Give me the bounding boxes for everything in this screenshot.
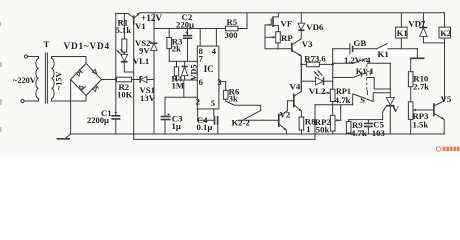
resistor R8 — [299, 111, 304, 134]
svg-text:13V: 13V — [140, 93, 156, 103]
svg-text:300: 300 — [225, 30, 239, 40]
scan edge artifacts — [0, 22, 2, 132]
wire pin4 stub — [215, 29, 217, 47]
wire secondary top to bridge — [52, 57, 87, 64]
wire V3 emitter column node — [300, 56, 302, 91]
svg-text:10K: 10K — [117, 90, 133, 100]
svg-text:K1: K1 — [378, 49, 389, 59]
wire raw DC vertical (bridge+ up to V1 collector, down to C1) — [115, 14, 117, 116]
capacitor C2 — [183, 29, 192, 62]
svg-text:~15V: ~15V — [55, 72, 64, 90]
wire pin5 stub — [213, 109, 215, 116]
wire GB feed column — [332, 49, 334, 89]
wire VF gate down to wiper line — [264, 25, 266, 49]
wire RP2 wiper up to S line — [340, 105, 342, 121]
sub rail y28.5 — [154, 28, 226, 30]
wire top raw DC to V1 — [116, 13, 128, 15]
svg-text:+: + — [114, 109, 118, 117]
wire pin8 stub — [199, 29, 201, 47]
svg-text:3k: 3k — [229, 94, 238, 104]
svg-text:6: 6 — [199, 77, 203, 87]
lower net wire (reference return) — [134, 105, 315, 140]
+12V rail — [140, 12, 445, 14]
svg-text:T: T — [44, 39, 50, 49]
node R7 left — [300, 63, 302, 65]
LED VL1 — [117, 49, 128, 61]
svg-text:K1-1: K1-1 — [356, 66, 374, 76]
resistor R2 — [117, 77, 134, 82]
node raw DC junction — [115, 78, 117, 80]
svg-text:1M: 1M — [172, 81, 185, 91]
svg-text:1µ: 1µ — [172, 121, 181, 131]
wire pin6-pin2 connector — [183, 80, 185, 97]
wire secondary bottom to bridge — [52, 96, 87, 102]
svg-text:+: + — [167, 112, 171, 119]
svg-text:4.7k: 4.7k — [351, 128, 367, 138]
svg-text:9V: 9V — [139, 46, 150, 56]
mechanical link dashed — [366, 60, 368, 92]
svg-text:VL1: VL1 — [133, 56, 149, 66]
wire V2 collector to V4 base — [287, 101, 293, 111]
wire gate line — [349, 119, 383, 121]
resistor R10 — [408, 58, 413, 102]
bridge rectifier VD1~VD4 diamond — [71, 64, 102, 96]
capacitor C4 — [215, 116, 218, 134]
svg-text:V5: V5 — [441, 94, 452, 104]
svg-text:IC: IC — [204, 64, 214, 74]
transistor V2 — [279, 111, 288, 134]
capacitor C5 — [364, 120, 373, 134]
svg-text:VL2: VL2 — [309, 86, 326, 96]
transformer T primary winding — [36, 59, 39, 99]
wire AC top lead — [28, 57, 39, 59]
wire V1 base column down to lower net — [133, 25, 135, 140]
transistor V5 — [434, 101, 445, 134]
wire pin2 line — [165, 96, 197, 98]
resistor R6 — [223, 90, 228, 101]
svg-text:VF: VF — [281, 18, 293, 28]
svg-text:1: 1 — [306, 124, 310, 134]
AC input terminal bottom — [21, 99, 24, 102]
resistor R3 — [167, 29, 172, 62]
AC input terminal top — [24, 55, 27, 58]
svg-text:2: 2 — [196, 97, 200, 107]
svg-text:103: 103 — [372, 128, 386, 138]
svg-text:R5: R5 — [227, 17, 238, 27]
ground rail (bottom) — [71, 133, 445, 135]
svg-text:2.7k: 2.7k — [413, 82, 429, 92]
svg-text:50k: 50k — [316, 125, 330, 135]
switch S — [353, 91, 391, 105]
svg-text:V3: V3 — [302, 39, 313, 49]
wire V4 collector up — [300, 56, 302, 91]
svg-text:V: V — [392, 104, 399, 114]
relay contact K1-1 upper — [333, 58, 391, 63]
transistor V4 — [294, 91, 302, 111]
potentiometer RP2 — [330, 115, 340, 134]
diode VD2 (top-right side) — [92, 69, 96, 74]
transformer T secondary winding — [52, 59, 55, 99]
relay contact K2-2 — [238, 111, 279, 121]
diode VD5 — [181, 61, 187, 80]
wire bridge DC+ output — [102, 79, 117, 81]
svg-text:VD6: VD6 — [306, 22, 324, 32]
relay contact K1-1 lower — [333, 73, 391, 89]
svg-text:~220V: ~220V — [13, 76, 36, 85]
watermark logo — [436, 147, 459, 152]
svg-text:VD1~VD4: VD1~VD4 — [64, 41, 110, 51]
battery GB — [333, 44, 377, 54]
wire R6 to K2-2 — [226, 101, 261, 110]
MOSFET VF — [265, 13, 278, 32]
svg-text:V4: V4 — [290, 81, 301, 91]
diode VD3 (bottom-left side) — [79, 86, 85, 90]
resistor R9 — [346, 120, 351, 134]
transformer core — [45, 53, 47, 103]
LED VL2 — [301, 70, 332, 85]
op IC 555 box — [197, 46, 219, 109]
resistor R4 — [174, 61, 178, 80]
svg-text:2k: 2k — [172, 44, 181, 54]
svg-text:220µ: 220µ — [176, 19, 194, 29]
svg-text:1.5k: 1.5k — [413, 120, 429, 130]
svg-text:7: 7 — [199, 54, 204, 64]
svg-text:4: 4 — [212, 46, 217, 56]
svg-text:+12V: +12V — [141, 13, 162, 23]
wire V3 base line — [265, 48, 292, 50]
svg-text:5.1k: 5.1k — [116, 25, 132, 35]
zener VS2 — [151, 42, 158, 51]
svg-text:0.1µ: 0.1µ — [197, 122, 213, 132]
relay contact K1 — [377, 44, 418, 49]
diode VD6 — [298, 13, 305, 39]
diode VD4 (bottom-right side) — [92, 85, 98, 91]
wire pin6 line — [177, 79, 198, 81]
diode VD1 (top-left side) — [76, 70, 82, 76]
relay coil K2 box — [439, 13, 451, 101]
transistor V1 — [128, 13, 140, 25]
potentiometer RP — [265, 32, 280, 49]
resistor R7 — [301, 62, 332, 67]
svg-text:S: S — [360, 95, 365, 105]
svg-text:K2: K2 — [440, 28, 451, 38]
zener VS1 — [134, 76, 154, 82]
svg-text:2200µ: 2200µ — [87, 115, 109, 125]
wire bridge DC- down to ground rail — [70, 80, 72, 135]
wire pin7 line — [169, 60, 197, 62]
svg-text:VD7: VD7 — [408, 19, 426, 29]
capacitor C1 — [111, 116, 120, 134]
svg-text:K1: K1 — [397, 28, 408, 38]
svg-text:RP: RP — [281, 33, 293, 43]
wire pin1 stub to C4 — [198, 109, 214, 120]
wire AC bottom lead — [24, 99, 38, 102]
svg-text:GB: GB — [354, 38, 367, 48]
potentiometer RP1 — [324, 89, 335, 115]
wire VL1 to base column — [124, 62, 133, 72]
wire pin3 to R6 — [219, 82, 226, 91]
svg-text:V2: V2 — [280, 110, 291, 120]
wire S feed line — [315, 104, 353, 106]
wire battery common drop — [410, 49, 424, 59]
thyristor V — [383, 97, 395, 134]
resistor R1 — [122, 14, 127, 55]
potentiometer RP3 — [408, 102, 434, 134]
node R7 right — [332, 63, 334, 65]
wire thyristor feed column — [389, 63, 391, 97]
ground symbol — [57, 134, 71, 139]
diode VD7 — [419, 13, 444, 43]
svg-text:5: 5 — [211, 98, 215, 108]
svg-text:+: + — [185, 30, 189, 37]
svg-text:R73.6: R73.6 — [304, 54, 326, 64]
relay coil K1 box — [396, 13, 408, 49]
contact tick marks K1-1 — [362, 71, 370, 77]
svg-text:4.7k: 4.7k — [335, 95, 351, 105]
resistor R5 — [226, 13, 248, 31]
svg-text:K2-2: K2-2 — [232, 118, 250, 128]
transistor V3 — [292, 39, 302, 57]
wire +12V feed column x154 — [153, 13, 155, 134]
capacitor C3 — [161, 97, 171, 134]
